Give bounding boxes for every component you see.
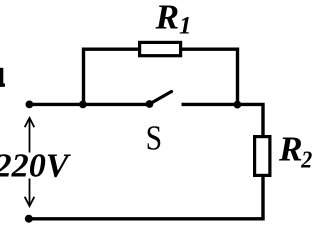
node: junction dot of right branch on middle bus (234, 101, 242, 109)
wire: middle bus left segment (left terminal to switch pivot) (29, 103, 150, 106)
voltage arrow head (bottom) (25, 197, 35, 206)
wire: R2 bottom lead and bottom bus back to left terminal (29, 175, 263, 219)
wire: left branch (top bus left segment + left vertical down to middle bus) (84, 49, 141, 104)
node: junction dot of parallel branch on middle bus (79, 101, 87, 109)
partial digit 4 clipped at left edge (problem number): stem (0, 68, 3, 87)
svg-text:220V: 220V (0, 148, 72, 185)
partial digit 4 clipped at left edge: serif foot (0, 83, 5, 86)
node: bottom-left terminal dot (25, 215, 33, 223)
voltage arrow head (top) (25, 118, 35, 127)
resistor R2 (box) (255, 137, 270, 176)
svg-text:2: 2 (300, 148, 312, 174)
svg-text:R: R (278, 129, 303, 169)
node: left terminal dot (top of source) (26, 101, 34, 109)
svg-text:S: S (146, 119, 163, 157)
voltage arrow shaft (double-headed, between terminals) (29, 118, 31, 206)
switch S lever (150, 92, 172, 105)
wire: right branch (top bus right segment + right vertical down to middle bus) (180, 49, 238, 104)
resistor R1 (box) (140, 42, 181, 55)
white backing behind 220V label (0, 153, 71, 179)
wire: middle bus right segment (switch right contact to top of R2 branch) (182, 104, 264, 137)
switch S pivot dot (146, 100, 154, 108)
svg-text:R: R (155, 0, 180, 37)
svg-text:1: 1 (179, 13, 192, 40)
